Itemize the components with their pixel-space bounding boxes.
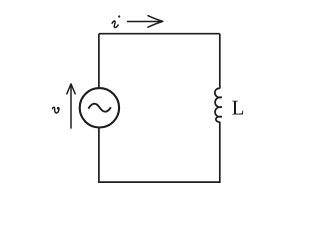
wire left lower	[98, 127, 100, 183]
source V1 sine	[88, 104, 111, 112]
wire right lower	[219, 122, 221, 183]
wire top	[99, 33, 220, 35]
svg-text:L: L	[232, 96, 245, 120]
source V1 circle	[80, 88, 119, 127]
arrow i	[127, 21, 161, 23]
wire left upper	[98, 34, 100, 89]
arrow v	[70, 86, 72, 129]
label v	[53, 107, 60, 113]
wire right upper	[219, 34, 221, 89]
wire bottom	[99, 181, 220, 183]
inductor L coil	[215, 88, 222, 122]
label i	[112, 15, 120, 27]
